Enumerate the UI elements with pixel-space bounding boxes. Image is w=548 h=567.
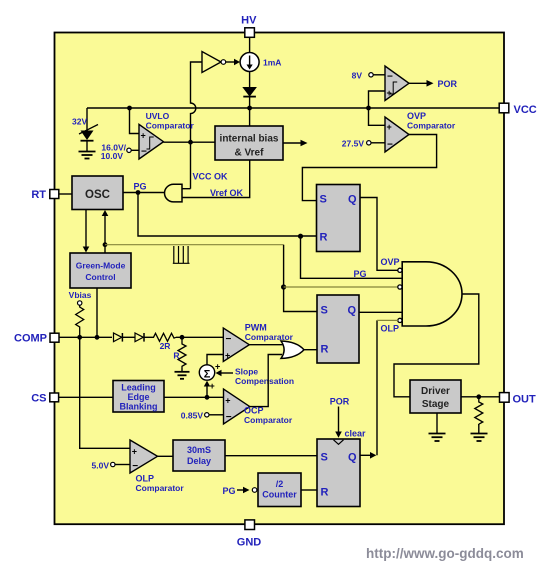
wire OR output to FF2 R xyxy=(304,349,317,351)
wire FF2 Q to AND xyxy=(359,311,402,313)
block Leading Edge Blanking xyxy=(113,381,164,413)
svg-text:clear: clear xyxy=(345,429,367,439)
resistor R xyxy=(173,337,186,368)
svg-text:R: R xyxy=(173,351,179,361)
svg-text:http://www.go-gddq.com: http://www.go-gddq.com xyxy=(366,546,524,561)
svg-text:Comparator: Comparator xyxy=(244,415,293,425)
hatch marks xyxy=(173,246,190,263)
node POR/OVP junction xyxy=(366,106,371,111)
node PG branch xyxy=(298,234,303,239)
svg-text:HV: HV xyxy=(241,15,257,27)
flip-flop FF1 xyxy=(317,185,361,252)
AND gate U2 (5-input) xyxy=(398,262,462,326)
wire POR plus input xyxy=(369,91,386,108)
op-amp OVP comparator xyxy=(385,111,456,152)
op-amp OCP comparator xyxy=(224,389,293,425)
diode D3 xyxy=(135,333,152,342)
diode D1 (HV) xyxy=(243,88,256,97)
node OUT junction xyxy=(476,394,481,399)
svg-text:OVP: OVP xyxy=(407,111,426,121)
svg-text:VCC OK: VCC OK xyxy=(193,172,229,182)
svg-text:27.5V: 27.5V xyxy=(342,139,365,149)
svg-text:S: S xyxy=(321,452,328,464)
svg-text:Comparator: Comparator xyxy=(245,332,294,342)
flip-flop FF2 xyxy=(317,295,359,363)
svg-text:OVP: OVP xyxy=(381,257,400,267)
svg-text:Compensation: Compensation xyxy=(235,376,294,386)
svg-text:RT: RT xyxy=(31,189,46,201)
wire COMP to OLP comparator xyxy=(80,337,130,448)
svg-text:Leading: Leading xyxy=(121,383,156,393)
op-amp POR comparator xyxy=(385,66,409,101)
wire COMP line xyxy=(59,336,112,338)
svg-text:Vbias: Vbias xyxy=(69,290,92,300)
block Driver Stage xyxy=(410,380,461,413)
svg-text:PG: PG xyxy=(222,486,235,496)
svg-text:−: − xyxy=(226,412,232,423)
svg-text:S: S xyxy=(320,194,327,206)
svg-text:POR: POR xyxy=(438,79,458,89)
ground (zener) xyxy=(79,141,96,159)
svg-text:Slope: Slope xyxy=(235,367,258,377)
svg-text:Q: Q xyxy=(347,305,356,317)
wire OCP output to OR xyxy=(250,355,282,407)
wire inverter to current source (arrow) xyxy=(226,59,240,66)
block /2 Counter xyxy=(258,473,301,507)
node clock junction xyxy=(103,242,108,247)
wire OLP to delay xyxy=(158,455,174,457)
wire GMC to OSC (up arrow) xyxy=(102,210,109,253)
wire POR output arrow xyxy=(409,79,458,89)
wire PG to FF1 R xyxy=(138,193,317,237)
OR gate U3 xyxy=(281,341,304,358)
wire Vref output arrow xyxy=(283,140,308,147)
resistor R2 (OUT pulldown) xyxy=(475,397,483,424)
node Vbias terminal xyxy=(69,290,92,305)
svg-text:Comparator: Comparator xyxy=(136,483,185,493)
wire RT to OSC xyxy=(59,193,72,195)
op-amp OLP comparator xyxy=(130,440,184,493)
pin RT xyxy=(31,189,58,201)
node PG xyxy=(136,190,141,195)
wire VCC rail y=108 xyxy=(87,107,499,109)
node 5.0V terminal xyxy=(92,461,131,471)
svg-text:30mS: 30mS xyxy=(187,445,211,455)
op-amp UVLO comparator xyxy=(139,111,194,159)
svg-text:Counter: Counter xyxy=(262,490,297,500)
wire zener top xyxy=(86,108,88,131)
svg-text:GND: GND xyxy=(237,537,262,549)
pin COMP xyxy=(14,333,59,345)
wire OVP plus input xyxy=(369,108,386,125)
wire GMC to COMP line xyxy=(96,288,98,337)
block Green-Mode Control xyxy=(70,253,131,288)
svg-text:S: S xyxy=(321,305,328,317)
svg-text:+: + xyxy=(210,381,215,391)
wire OSC to GMC (down arrow) xyxy=(83,210,90,253)
svg-text:OLP: OLP xyxy=(381,324,400,334)
wire Driver output to OUT xyxy=(461,396,500,398)
current source 1mA xyxy=(240,53,281,72)
svg-text:+: + xyxy=(141,131,146,141)
svg-text:VCC: VCC xyxy=(514,104,537,116)
svg-text:32V: 32V xyxy=(72,117,87,127)
wire PG to /2 counter xyxy=(222,486,258,496)
wire CS to sigma (up arrow) xyxy=(204,381,210,397)
node diode junction xyxy=(247,106,252,111)
svg-text:/2: /2 xyxy=(276,479,284,489)
svg-text:+: + xyxy=(215,362,220,372)
IC boundary box xyxy=(55,33,505,525)
wire LEB to OCP xyxy=(164,396,224,398)
svg-text:Σ: Σ xyxy=(204,369,211,381)
zener ZD 32V xyxy=(72,117,98,141)
svg-text:−: − xyxy=(387,140,393,151)
resistor Vbias xyxy=(76,305,84,337)
summer sigma xyxy=(199,362,220,392)
svg-text:−: − xyxy=(132,461,138,472)
diode D2 xyxy=(114,333,136,342)
svg-text:R: R xyxy=(320,232,328,244)
svg-text:COMP: COMP xyxy=(14,333,47,345)
wire PG to big AND xyxy=(301,236,403,278)
wire clock horizontal xyxy=(105,244,284,246)
node 0.85V terminal xyxy=(181,411,224,421)
inverter U1 xyxy=(202,52,226,73)
pin CS xyxy=(31,393,58,405)
svg-text:−: − xyxy=(387,72,393,83)
block OSC xyxy=(72,176,123,210)
node 8V terminal xyxy=(352,71,385,81)
node clock-AND branch xyxy=(281,284,286,289)
svg-text:Q: Q xyxy=(348,194,357,206)
node UVLO plus junction xyxy=(127,106,132,111)
wire current source to diode xyxy=(249,72,251,88)
block internal bias & Vref xyxy=(215,126,283,160)
node CS junction xyxy=(205,395,210,400)
svg-text:& Vref: & Vref xyxy=(235,148,265,159)
pin HV xyxy=(241,15,257,38)
wire inverter input loop (with hop over VCC line) xyxy=(191,62,203,142)
svg-text:Green-Mode: Green-Mode xyxy=(76,261,126,271)
svg-text:Stage: Stage xyxy=(422,399,450,410)
wire diode to internal bias xyxy=(249,98,251,127)
svg-text:PG: PG xyxy=(134,182,147,192)
wire HV stem xyxy=(249,37,251,52)
svg-text:Comparator: Comparator xyxy=(146,121,195,131)
svg-text:POR: POR xyxy=(330,397,350,407)
wire 2R to PWM comparator xyxy=(176,336,223,338)
svg-text:CS: CS xyxy=(31,393,46,405)
AND gate PG (mirrored, points left) xyxy=(165,184,191,202)
svg-text:+: + xyxy=(387,122,392,132)
wire clock vertical to FF2 S xyxy=(284,245,317,312)
op-amp PWM comparator xyxy=(223,323,293,362)
svg-text:+: + xyxy=(225,396,230,406)
svg-text:PG: PG xyxy=(354,269,367,279)
svg-text:Edge: Edge xyxy=(127,392,149,402)
svg-text:OSC: OSC xyxy=(85,189,110,201)
svg-text:−: − xyxy=(141,147,147,158)
pin VCC xyxy=(499,103,537,116)
node 27.5V terminal xyxy=(342,139,385,149)
svg-text:Delay: Delay xyxy=(187,456,211,466)
wire FF1 Q to AND (OVP) xyxy=(360,198,398,271)
svg-text:+: + xyxy=(132,447,137,457)
node COMP junction 2 xyxy=(95,335,100,340)
block 30mS Delay xyxy=(173,440,225,471)
wire FF3 Q to AND (OLP, arrow) xyxy=(360,320,399,458)
svg-text:OUT: OUT xyxy=(513,394,537,406)
wire slope comp arrow xyxy=(216,367,295,387)
wire /2 to FF3 R xyxy=(301,489,317,491)
wire PG gate output to OSC xyxy=(123,192,165,194)
svg-text:PWM: PWM xyxy=(245,323,267,333)
wire AND output to Driver xyxy=(394,294,479,397)
ground (R) xyxy=(175,368,190,379)
svg-text:+: + xyxy=(225,351,230,361)
pin GND xyxy=(237,520,262,549)
wire UVLO output xyxy=(164,141,216,143)
pin OUT xyxy=(500,393,537,406)
resistor 2R xyxy=(152,333,176,351)
svg-text:1mA: 1mA xyxy=(263,58,281,68)
svg-text:Blanking: Blanking xyxy=(119,402,157,412)
ground (OUT resistor) xyxy=(471,424,488,441)
wire OVP output to FF1 S xyxy=(302,135,436,201)
node UVLO output junction xyxy=(188,140,193,145)
node R junction xyxy=(180,335,185,340)
wire Vref OK xyxy=(182,160,250,198)
wire PWM output to OR xyxy=(249,344,283,346)
flip-flop FF3 xyxy=(317,439,360,507)
wire CS to LEB xyxy=(59,396,113,398)
svg-text:8V: 8V xyxy=(352,71,363,81)
svg-text:Control: Control xyxy=(85,272,115,282)
node 16V input terminal xyxy=(101,143,139,162)
svg-text:Q: Q xyxy=(348,452,357,464)
svg-text:Vref OK: Vref OK xyxy=(210,188,244,198)
svg-text:R: R xyxy=(321,487,329,499)
wire POR to FF3 clear xyxy=(330,397,366,439)
ground (driver) xyxy=(429,413,446,441)
svg-text:UVLO: UVLO xyxy=(146,111,170,121)
svg-text:10.0V: 10.0V xyxy=(101,151,124,161)
svg-text:internal bias: internal bias xyxy=(220,134,279,145)
node COMP junction 1 xyxy=(77,335,82,340)
wire UVLO plus input xyxy=(130,108,140,134)
wire sigma to PWM plus xyxy=(207,355,223,365)
svg-text:2R: 2R xyxy=(160,341,171,351)
svg-text:−: − xyxy=(226,334,232,345)
svg-text:0.85V: 0.85V xyxy=(181,411,204,421)
svg-text:R: R xyxy=(321,344,329,356)
svg-text:OLP: OLP xyxy=(136,474,155,484)
svg-text:+: + xyxy=(387,88,392,98)
svg-text:5.0V: 5.0V xyxy=(92,461,110,471)
wire clock to big AND (olive) xyxy=(284,286,398,288)
wire VCC-OK vertical xyxy=(190,142,192,189)
wire delay to FF3 S xyxy=(225,455,317,457)
svg-text:Driver: Driver xyxy=(421,386,450,397)
svg-text:Comparator: Comparator xyxy=(407,121,456,131)
